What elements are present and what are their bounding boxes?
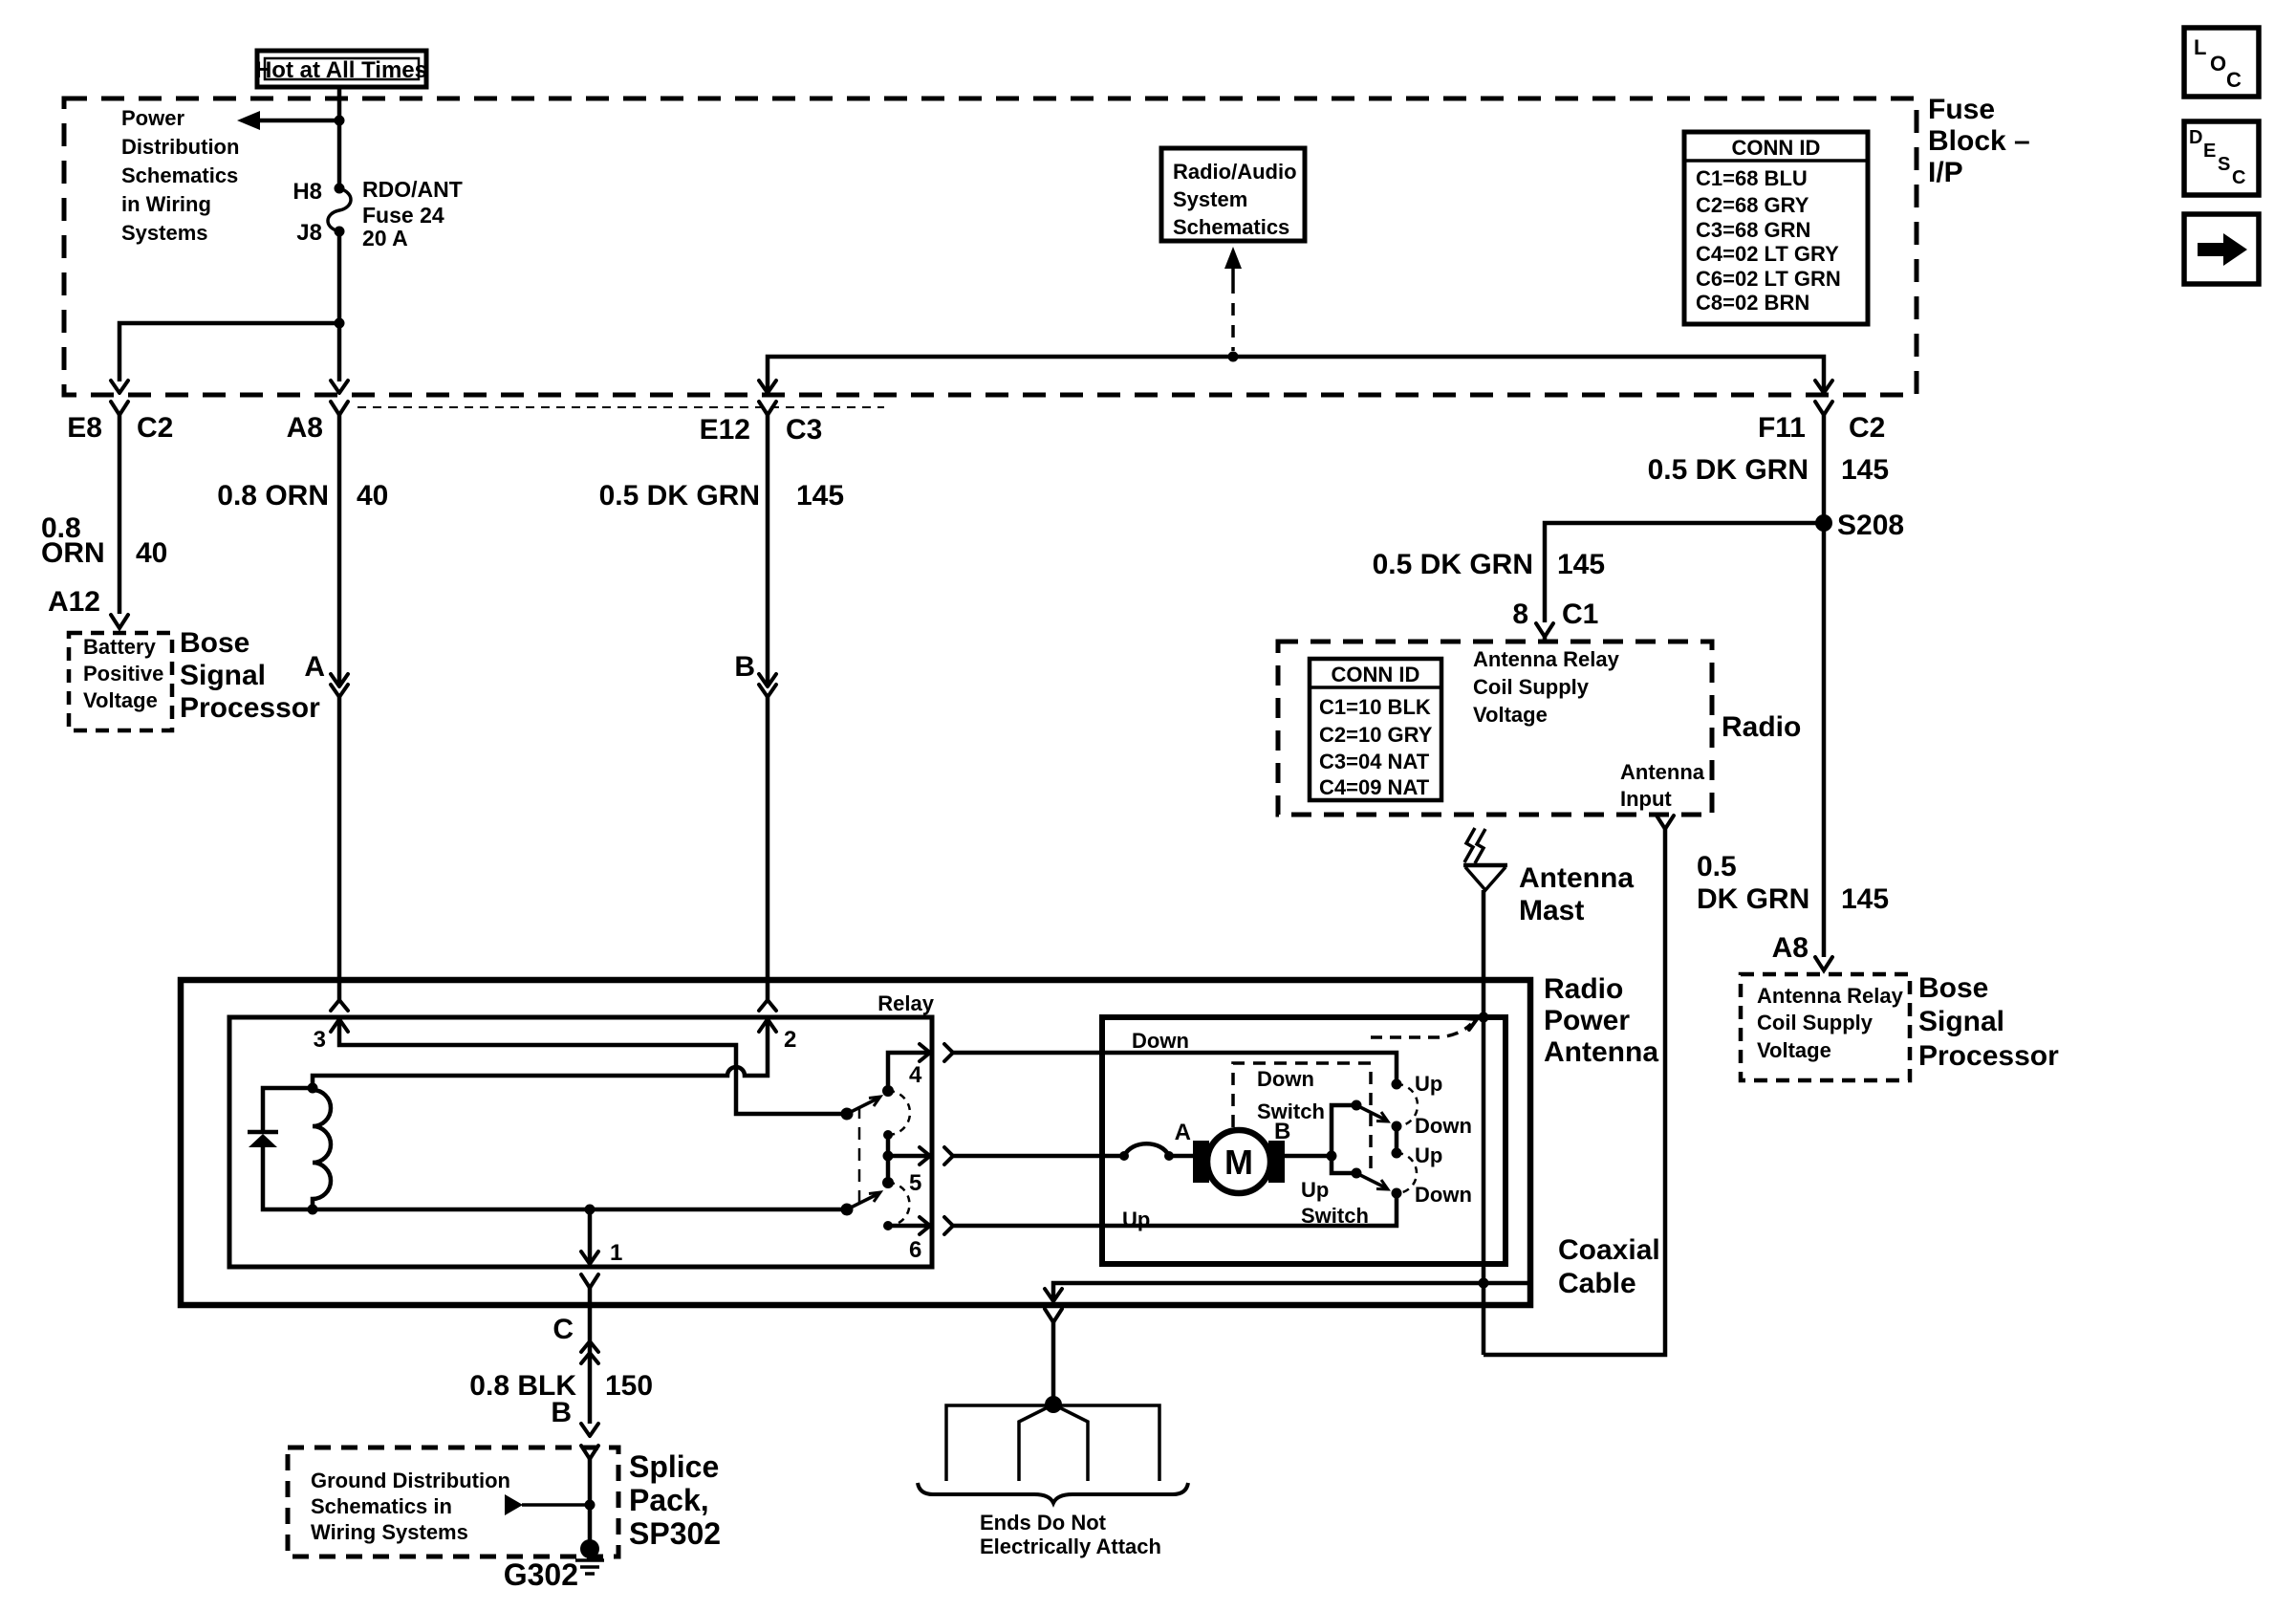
svg-text:8: 8 <box>1512 599 1528 630</box>
dashed arrow to radio audio box <box>1224 247 1242 351</box>
pin 3 arrow <box>331 1019 348 1032</box>
coax chevron below box <box>1045 1309 1062 1322</box>
dashed arc 5 to 6 <box>888 1183 910 1226</box>
svg-text:A8: A8 <box>287 412 323 444</box>
wire A8 down <box>337 415 342 686</box>
svg-text:C2: C2 <box>1849 412 1885 444</box>
label antenna input <box>1620 760 1705 811</box>
bose signal processor label <box>180 627 320 724</box>
svg-text:SP302: SP302 <box>629 1516 721 1551</box>
svg-text:Wiring Systems: Wiring Systems <box>311 1520 468 1544</box>
splice pack dashed box <box>288 1448 618 1557</box>
svg-text:E12: E12 <box>700 414 750 446</box>
splice arrow <box>581 1424 598 1436</box>
wire pin 3 to contact <box>339 1019 847 1114</box>
lower movable contact <box>841 1192 881 1216</box>
pin 5 chevron <box>944 1147 953 1165</box>
svg-text:RDO/ANT: RDO/ANT <box>362 177 463 202</box>
svg-text:Antenna: Antenna <box>1544 1036 1658 1068</box>
svg-text:S: S <box>2218 154 2230 175</box>
wire crossover contacts <box>1395 1126 1399 1153</box>
svg-text:C6=02 LT GRN: C6=02 LT GRN <box>1696 267 1841 291</box>
wire pin 5 to motor <box>953 1154 1124 1159</box>
svg-text:C1: C1 <box>1562 599 1598 630</box>
svg-text:System: System <box>1173 187 1247 211</box>
svg-text:0.5 DK GRN: 0.5 DK GRN <box>599 480 760 512</box>
breaker A <box>1119 1143 1195 1161</box>
svg-text:A: A <box>1175 1120 1191 1145</box>
bose signal processor label right <box>1918 972 2059 1072</box>
label 0.5 DK GRN 145 F11 wire <box>1648 454 1889 486</box>
svg-text:Distribution: Distribution <box>121 135 239 159</box>
connector B chevron <box>759 685 776 697</box>
wire branch to E8 <box>119 323 339 381</box>
svg-text:Down: Down <box>1257 1067 1314 1091</box>
svg-text:0.5 DK GRN: 0.5 DK GRN <box>1648 454 1809 486</box>
svg-text:C: C <box>2226 68 2242 92</box>
svg-text:Up: Up <box>1415 1072 1442 1096</box>
svg-text:Schematics: Schematics <box>121 163 238 187</box>
pin 2 arrow <box>759 1019 776 1032</box>
svg-text:Voltage: Voltage <box>1757 1038 1831 1062</box>
svg-text:1: 1 <box>610 1240 622 1266</box>
svg-text:Bose: Bose <box>1918 972 1988 1004</box>
svg-text:3: 3 <box>314 1027 326 1053</box>
svg-text:20 A: 20 A <box>362 226 408 250</box>
dashed arc 4 to 5 <box>888 1091 910 1135</box>
svg-text:Up: Up <box>1301 1178 1329 1202</box>
svg-text:C3=68 GRN: C3=68 GRN <box>1696 218 1810 242</box>
labels F11 C2 <box>1758 412 1885 444</box>
pin 4 wire and arrow <box>888 1044 930 1091</box>
wire stub radio pin 8 <box>1543 637 1548 642</box>
down switch arm <box>1332 1100 1388 1157</box>
svg-text:Splice: Splice <box>629 1449 719 1484</box>
svg-text:C3=04 NAT: C3=04 NAT <box>1319 750 1430 773</box>
wire coil bottom bus <box>313 1208 847 1212</box>
node coil top <box>308 1083 318 1094</box>
connector chevron pin 2 <box>759 1000 776 1011</box>
contact down 1 <box>1392 1121 1402 1132</box>
connector Y A12 <box>111 615 128 628</box>
svg-text:Switch: Switch <box>1257 1099 1325 1123</box>
down switch dashed box <box>1233 1063 1371 1171</box>
pin 6 chevron <box>944 1217 953 1234</box>
svg-text:Cable: Cable <box>1558 1268 1636 1299</box>
up switch arm <box>1332 1156 1388 1189</box>
node power feed <box>335 116 345 126</box>
connector Y E12 <box>759 402 776 415</box>
svg-text:Down: Down <box>1415 1183 1472 1207</box>
contact up 2 <box>1392 1148 1402 1159</box>
connector A arrow <box>331 674 348 686</box>
label 0.8 BLK 150 <box>469 1370 653 1402</box>
pin 6 wire and arrow <box>888 1217 930 1234</box>
dashed contact link <box>858 1106 861 1204</box>
relay box <box>229 1017 932 1267</box>
svg-text:C3: C3 <box>786 414 822 446</box>
svg-text:A8: A8 <box>1772 932 1809 964</box>
svg-text:O: O <box>2210 52 2226 76</box>
relay coil <box>313 1088 331 1209</box>
svg-text:Radio: Radio <box>1722 711 1801 743</box>
label 0.5 DK GRN 145 E12 wire <box>599 480 844 512</box>
wire mast down <box>1482 890 1486 1355</box>
coax arrow at box <box>1045 1289 1062 1301</box>
radio conn id table <box>1310 659 1441 800</box>
svg-text:Block –: Block – <box>1928 125 2030 157</box>
svg-text:H8: H8 <box>292 179 322 205</box>
svg-text:G302: G302 <box>504 1557 578 1592</box>
fuse F24 symbol <box>328 184 351 237</box>
svg-text:Radio: Radio <box>1544 973 1623 1005</box>
svg-text:Bose: Bose <box>180 627 249 659</box>
dashed arc up switch <box>1397 1153 1417 1193</box>
svg-text:Systems: Systems <box>121 221 208 245</box>
node branch E8 <box>335 318 345 329</box>
contact down 2 <box>1392 1188 1402 1199</box>
svg-text:CONN ID: CONN ID <box>1732 136 1821 160</box>
svg-text:Antenna: Antenna <box>1519 862 1634 894</box>
label coaxial cable <box>1558 1234 1660 1299</box>
svg-text:L: L <box>2194 35 2206 59</box>
motor M1 <box>1193 1130 1285 1193</box>
svg-text:40: 40 <box>357 480 388 512</box>
connector Y E8 <box>111 402 128 415</box>
svg-text:Processor: Processor <box>1918 1040 2059 1072</box>
connector Y radio pin 8 <box>1536 623 1553 637</box>
wire pin 6 to down contact <box>953 1193 1397 1226</box>
labels E12 C3 <box>700 414 823 446</box>
svg-text:C4=02 LT GRY: C4=02 LT GRY <box>1696 242 1839 266</box>
radio power antenna box <box>181 980 1530 1305</box>
wire contact column <box>886 1135 891 1183</box>
label antenna mast <box>1519 862 1634 926</box>
label 8 C1 <box>1512 599 1598 630</box>
arrow icon <box>2184 214 2259 284</box>
label up switch <box>1301 1178 1369 1228</box>
hot at all times box <box>255 51 427 87</box>
pin 5 wire and arrow <box>888 1147 930 1165</box>
connector A chevron <box>331 685 348 697</box>
fuse block I/P dashed box <box>64 98 1917 395</box>
connector B arrow <box>759 674 776 686</box>
ground distribution text <box>311 1469 510 1544</box>
node ends junction <box>1045 1396 1062 1413</box>
svg-text:A: A <box>304 651 325 683</box>
svg-text:145: 145 <box>1841 454 1889 486</box>
pin 4 chevron <box>944 1044 953 1061</box>
fuse labels <box>292 177 462 250</box>
svg-text:E8: E8 <box>67 412 102 444</box>
dashed link to mast <box>1371 1018 1477 1037</box>
wire F11 down <box>1822 415 1827 957</box>
label 0.8 ORN 40 left <box>41 512 167 569</box>
svg-text:Coaxial: Coaxial <box>1558 1234 1660 1266</box>
svg-text:Schematics in: Schematics in <box>311 1494 452 1518</box>
svg-text:145: 145 <box>796 480 844 512</box>
connector chevron pin 1 <box>581 1274 598 1288</box>
wire J8 down <box>337 231 342 323</box>
node switch split <box>1327 1151 1337 1162</box>
svg-text:Ends Do Not: Ends Do Not <box>980 1511 1107 1535</box>
ground G302 <box>575 1539 604 1574</box>
svg-text:Fuse 24: Fuse 24 <box>362 203 444 228</box>
contact pin 6 <box>883 1221 893 1230</box>
DESC icon <box>2184 121 2259 195</box>
inline connector chevrons C <box>581 1341 598 1363</box>
wire pin 1 to splice <box>588 1288 593 1424</box>
svg-text:Electrically Attach: Electrically Attach <box>980 1535 1161 1558</box>
svg-text:Input: Input <box>1620 787 1672 811</box>
svg-text:C1=10 BLK: C1=10 BLK <box>1319 695 1431 719</box>
connector Y A8 bose <box>1815 957 1832 970</box>
wire coax ground drop <box>1051 1322 1056 1398</box>
svg-text:D: D <box>2189 127 2202 148</box>
splice S208 <box>1815 514 1832 532</box>
svg-text:C4=09 NAT: C4=09 NAT <box>1319 775 1430 799</box>
svg-text:Antenna Relay: Antenna Relay <box>1473 647 1620 671</box>
svg-text:Radio/Audio: Radio/Audio <box>1173 160 1297 184</box>
labels E8 C2 <box>67 412 173 444</box>
svg-text:C: C <box>552 1314 574 1345</box>
svg-text:B: B <box>551 1397 572 1428</box>
svg-text:145: 145 <box>1841 883 1889 915</box>
connector chevron pin 3 <box>331 1000 348 1011</box>
svg-text:2: 2 <box>784 1027 796 1053</box>
battery positive voltage box <box>69 633 172 730</box>
radio audio system schematics box <box>1161 148 1305 241</box>
connector Y A8 <box>331 402 348 415</box>
coax shield line <box>1053 1283 1530 1300</box>
contact up 1 <box>1392 1079 1402 1090</box>
diode D1 <box>248 1088 313 1209</box>
svg-text:M: M <box>1224 1143 1253 1182</box>
svg-text:Signal: Signal <box>1918 1006 2004 1037</box>
ends inner right <box>1053 1404 1088 1481</box>
wire motor B to switches <box>1285 1154 1332 1159</box>
node coil bottom <box>308 1205 318 1215</box>
svg-text:C2: C2 <box>137 412 173 444</box>
label down switch <box>1257 1067 1325 1123</box>
wire A8 to antenna box <box>337 697 342 980</box>
power distribution text <box>121 106 239 245</box>
wire stub pin 2 <box>766 980 770 1000</box>
ends inner left <box>1019 1404 1053 1481</box>
svg-text:J8: J8 <box>296 220 322 246</box>
ends brace <box>918 1483 1188 1503</box>
svg-text:145: 145 <box>1557 549 1605 580</box>
pin 1 arrow <box>581 1252 598 1264</box>
wire hot to H8 <box>337 86 342 188</box>
svg-text:Down: Down <box>1415 1114 1472 1138</box>
connector Y antenna input <box>1657 816 1674 829</box>
label 0.5 DK GRN 145 below S208 <box>1697 851 1889 915</box>
svg-text:Relay: Relay <box>877 991 934 1015</box>
wire E12 to antenna box <box>766 697 770 980</box>
E12 F11 bus <box>768 357 1824 393</box>
ends outer bracket <box>946 1405 1159 1481</box>
svg-text:4: 4 <box>909 1062 922 1088</box>
svg-text:150: 150 <box>605 1370 653 1402</box>
svg-text:Battery: Battery <box>83 635 157 659</box>
contact mid bottom <box>882 1177 894 1188</box>
svg-text:40: 40 <box>136 537 167 569</box>
wire pin 1 down <box>588 1209 593 1264</box>
connector Y F11 <box>1815 402 1832 415</box>
label 0.5 DK GRN 145 radio branch <box>1373 549 1605 580</box>
svg-text:0.5: 0.5 <box>1697 851 1737 882</box>
svg-text:Processor: Processor <box>180 692 320 724</box>
node radio audio tap <box>1228 352 1239 362</box>
svg-text:C8=02 BRN: C8=02 BRN <box>1696 291 1809 315</box>
svg-text:C2=10 GRY: C2=10 GRY <box>1319 723 1433 747</box>
radio dashed box <box>1278 642 1712 815</box>
node coax shield <box>1479 1278 1489 1289</box>
svg-text:Antenna: Antenna <box>1620 760 1705 784</box>
svg-text:0.8 ORN: 0.8 ORN <box>217 480 329 512</box>
connector chevron splice <box>581 1446 598 1459</box>
wire E8 branch <box>118 415 122 614</box>
svg-text:Power: Power <box>1544 1005 1630 1036</box>
node pin 5 <box>883 1151 894 1162</box>
svg-text:ORN: ORN <box>41 537 105 569</box>
fuse block label <box>1928 94 2030 188</box>
wire antenna input coax <box>1484 829 1665 1355</box>
LOC icon <box>2184 28 2259 97</box>
svg-text:Pack,: Pack, <box>629 1483 709 1517</box>
svg-text:6: 6 <box>909 1237 921 1263</box>
svg-text:Hot at All Times: Hot at All Times <box>255 57 427 83</box>
svg-text:in Wiring: in Wiring <box>121 192 211 216</box>
label antenna relay coil supply voltage <box>1473 647 1620 727</box>
svg-text:Signal: Signal <box>180 660 266 691</box>
label radio power antenna <box>1544 973 1658 1068</box>
wire stub pin 3 <box>337 980 342 1000</box>
svg-text:Coil Supply: Coil Supply <box>1757 1011 1874 1034</box>
wire to power distribution arrow <box>237 111 339 130</box>
svg-text:S208: S208 <box>1837 510 1904 541</box>
label ends do not electrically attach <box>980 1511 1161 1558</box>
node mast motor top <box>1479 1012 1489 1023</box>
svg-text:Antenna Relay: Antenna Relay <box>1757 984 1904 1008</box>
node splice tap <box>585 1500 596 1511</box>
wire pin 4 to up contact <box>953 1053 1397 1084</box>
svg-text:DK GRN: DK GRN <box>1697 883 1809 915</box>
svg-text:Down: Down <box>1132 1029 1189 1053</box>
antenna mast symbol <box>1463 828 1507 890</box>
contact pin 4 <box>882 1085 894 1097</box>
svg-text:I/P: I/P <box>1928 157 1963 188</box>
antenna relay coil supply voltage box bose <box>1741 974 1910 1080</box>
svg-text:Up: Up <box>1415 1143 1442 1167</box>
svg-text:Power: Power <box>121 106 184 130</box>
svg-text:Schematics: Schematics <box>1173 215 1289 239</box>
svg-text:CONN ID: CONN ID <box>1332 663 1420 686</box>
motor box <box>1102 1017 1505 1264</box>
arrow A8 at edge <box>331 381 348 393</box>
node pin 1 tap <box>585 1205 596 1215</box>
svg-text:Voltage: Voltage <box>83 688 158 712</box>
svg-text:E: E <box>2203 141 2216 162</box>
svg-text:B: B <box>734 651 755 683</box>
svg-text:A12: A12 <box>48 586 100 618</box>
upper movable contact <box>841 1097 881 1121</box>
svg-text:Coil Supply: Coil Supply <box>1473 675 1590 699</box>
dashed arc down switch <box>1397 1084 1418 1126</box>
svg-text:5: 5 <box>909 1170 921 1196</box>
wire E12 down <box>766 415 770 686</box>
svg-text:Mast: Mast <box>1519 895 1584 926</box>
svg-text:Ground Distribution: Ground Distribution <box>311 1469 510 1492</box>
contact mid top <box>883 1130 893 1140</box>
svg-text:C1=68 BLU: C1=68 BLU <box>1696 166 1808 190</box>
wire pin 2 to coil with hop <box>313 1019 768 1088</box>
fuse block conn id table <box>1684 132 1868 324</box>
svg-text:F11: F11 <box>1758 412 1806 444</box>
thin dashed connector line C3 <box>357 406 884 408</box>
svg-text:Switch: Switch <box>1301 1204 1369 1228</box>
wire A8 to edge <box>337 323 342 381</box>
arrow E12 at edge <box>759 381 776 393</box>
svg-text:Positive: Positive <box>83 662 163 686</box>
svg-text:C: C <box>2232 167 2245 188</box>
label 0.8 ORN 40 A8 wire <box>217 480 388 512</box>
arrow E8 at edge <box>111 381 128 393</box>
arrow F11 at edge <box>1815 381 1832 393</box>
svg-text:0.5 DK GRN: 0.5 DK GRN <box>1373 549 1533 580</box>
svg-text:C2=68 GRY: C2=68 GRY <box>1696 193 1809 217</box>
wire branch to radio C1 <box>1545 523 1824 622</box>
svg-text:Fuse: Fuse <box>1928 94 1995 125</box>
ground distribution arrow <box>505 1494 590 1515</box>
wire splice down <box>588 1459 593 1541</box>
label splice pack SP302 <box>629 1449 721 1551</box>
svg-text:Voltage: Voltage <box>1473 703 1548 727</box>
